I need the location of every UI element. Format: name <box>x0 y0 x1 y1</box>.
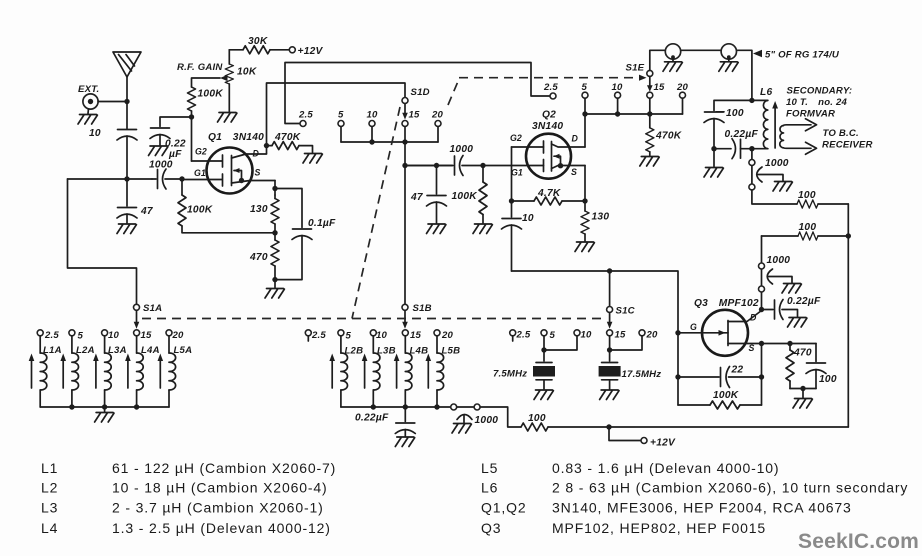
inductor L6 secondary <box>780 119 817 155</box>
capacitor 1000 (feedthrough) <box>457 415 472 423</box>
wire input line <box>68 178 153 180</box>
svg-text:+12V: +12V <box>650 438 676 449</box>
wire S1D bus down to S1B <box>404 142 406 304</box>
antenna <box>113 52 141 102</box>
svg-text:D: D <box>572 134 579 144</box>
resistor 100K (Q3 gate) <box>678 401 762 409</box>
ground (L-A common) <box>104 407 106 412</box>
ground (0.22uF Q3) <box>788 318 807 328</box>
inductor L3A <box>93 336 111 407</box>
svg-text:G2: G2 <box>510 133 522 143</box>
wire jack down to 100 line <box>752 190 797 204</box>
svg-text:47: 47 <box>140 206 154 217</box>
svg-text:2.5: 2.5 <box>516 330 531 341</box>
svg-text:470: 470 <box>249 252 268 263</box>
svg-text:0.1µF: 0.1µF <box>308 218 336 229</box>
svg-text:Q1,Q2: Q1,Q2 <box>481 500 527 516</box>
svg-text:20: 20 <box>646 330 659 341</box>
svg-text:+12V: +12V <box>298 46 324 57</box>
node Q2 G1 junction <box>480 163 485 168</box>
wiper arrow S1D <box>402 104 408 120</box>
node 100/0.22 junction <box>711 146 716 151</box>
dashed link S1D to S1E <box>448 78 639 105</box>
ground (J1) <box>663 62 682 72</box>
wire source branch <box>274 181 276 196</box>
svg-text:0.22µF: 0.22µF <box>355 413 389 424</box>
resistor 4.7K <box>512 197 586 205</box>
svg-text:L3A: L3A <box>108 345 127 356</box>
svg-text:10K: 10K <box>237 67 257 78</box>
crystal Y2 17.5MHz <box>599 350 621 389</box>
node 47 cap junction <box>434 163 439 168</box>
node 130/100K junction <box>272 230 277 235</box>
ground (tank cap) <box>713 149 715 167</box>
svg-text:L5B: L5B <box>442 346 461 357</box>
inductor L5B <box>426 336 444 407</box>
ground (Q3 source) <box>802 389 804 398</box>
node ground tap <box>800 386 805 391</box>
capacitor 47 <box>117 179 137 223</box>
resistor 100 (12V feed) <box>521 423 848 431</box>
svg-text:G2: G2 <box>195 147 207 157</box>
svg-text:S1A: S1A <box>143 303 162 314</box>
capacitor 0.22uF (output) <box>714 139 752 159</box>
resistor 130 (Q1 source) <box>271 195 279 233</box>
terminal 2.5 (S1E) <box>550 93 556 99</box>
svg-text:L2A: L2A <box>76 345 95 356</box>
wire S1E wiper to coax line <box>650 50 752 100</box>
capacitor 0.22uF (L-B common) <box>395 407 415 436</box>
svg-text:100: 100 <box>528 413 546 424</box>
svg-text:1000: 1000 <box>767 255 791 266</box>
wire L-B common <box>341 406 451 408</box>
ground (EXT) <box>78 115 97 125</box>
svg-text:L6: L6 <box>760 87 772 98</box>
inductor L3B <box>362 336 380 407</box>
svg-text:20: 20 <box>431 110 444 121</box>
svg-text:130: 130 <box>592 212 610 223</box>
svg-text:2.5: 2.5 <box>44 330 59 341</box>
inductor L4A <box>125 336 143 407</box>
resistor 100K (R.F. gain feed) <box>188 78 221 117</box>
svg-text:2.5: 2.5 <box>543 82 558 93</box>
wire G2 down <box>511 147 513 201</box>
node source/130 junction <box>582 198 587 203</box>
svg-text:0.22: 0.22 <box>165 139 186 150</box>
wire Q1 drain to S1D wiper <box>267 83 406 154</box>
node +12V tap <box>606 424 611 429</box>
inductor L2A <box>60 336 78 407</box>
node Q3 gate junction <box>675 330 680 335</box>
transistor Q3 (MPF102 JFET) <box>678 310 816 356</box>
ground (J2) <box>719 62 738 72</box>
svg-text:SeekIC.com: SeekIC.com <box>798 530 919 553</box>
svg-text:470K: 470K <box>655 131 682 142</box>
ground (470K) <box>303 154 322 164</box>
wire S1C wiper feed <box>609 271 611 306</box>
node antenna junction <box>124 99 129 104</box>
svg-text:20: 20 <box>676 82 689 93</box>
wiper arrow S1B <box>402 310 408 328</box>
svg-text:100: 100 <box>799 222 817 233</box>
wire +12V stub <box>609 427 641 441</box>
svg-text:G: G <box>690 322 697 332</box>
node Q3 source junction <box>759 341 764 346</box>
svg-text:470: 470 <box>793 348 812 359</box>
jack J1 (feedthrough) <box>665 44 680 61</box>
wire crystal bus to Q3 gate <box>512 271 679 333</box>
ground (130) <box>575 242 594 252</box>
dashed link S1D to gang <box>352 107 400 319</box>
wire G2 to bias node <box>191 117 193 161</box>
svg-text:17.5MHz: 17.5MHz <box>622 369 662 380</box>
resistor 130 (Q2) <box>581 201 589 241</box>
svg-text:2.5: 2.5 <box>311 330 326 341</box>
svg-text:Q3 MPF102: Q3 MPF102 <box>694 298 759 309</box>
switch S1D wiper <box>402 98 408 104</box>
capacitor 0.22uF (Q3 drain) <box>762 300 798 320</box>
svg-text:D: D <box>253 149 260 159</box>
svg-text:S: S <box>749 343 755 353</box>
svg-text:100: 100 <box>819 374 837 385</box>
switch S1E contacts 5,10,15,20 <box>582 92 686 114</box>
wiper arrow S1A <box>134 310 140 328</box>
capacitor 10 <box>117 102 137 180</box>
svg-text:100K: 100K <box>713 390 739 401</box>
resistor 30K <box>229 46 289 54</box>
node Q3 drain junction <box>759 307 764 312</box>
svg-text:D: D <box>750 313 757 323</box>
wire source network right leg <box>761 344 763 406</box>
switch S1C wiper <box>607 307 613 313</box>
node 22 cap left <box>675 374 680 379</box>
node common dots <box>371 404 376 409</box>
node source bias tap <box>787 341 792 346</box>
svg-text:100: 100 <box>726 108 744 119</box>
wire mixer line <box>405 165 452 167</box>
svg-text:10: 10 <box>612 82 624 93</box>
svg-text:5: 5 <box>582 82 588 93</box>
svg-text:L1A: L1A <box>43 345 62 356</box>
svg-text:15: 15 <box>410 330 422 341</box>
ground (1000 feedthrough) <box>773 182 792 192</box>
svg-text:1000: 1000 <box>765 158 789 169</box>
svg-text:10: 10 <box>522 213 534 224</box>
svg-text:5: 5 <box>338 110 344 121</box>
wiper arrow S1E <box>647 76 653 91</box>
svg-text:2.5: 2.5 <box>298 110 313 121</box>
svg-text:30K: 30K <box>248 36 268 47</box>
resistor 470 (Q1 source) <box>271 233 279 280</box>
capacitor 1000 (Q2 coupling) <box>405 156 483 176</box>
svg-text:0.22µF: 0.22µF <box>787 296 821 307</box>
wire gate network left leg <box>677 333 679 405</box>
svg-text:TO B.C.: TO B.C. <box>823 128 859 139</box>
node S1A source junction <box>272 186 277 191</box>
svg-text:S: S <box>571 167 577 177</box>
dashed link S1A-S1B-S1C <box>142 318 603 320</box>
svg-text:S1E: S1E <box>626 63 645 74</box>
wire Q2 source down <box>584 166 586 202</box>
wire Q2 drain up to range bus <box>584 114 586 147</box>
svg-text:10: 10 <box>581 330 593 341</box>
svg-text:10: 10 <box>108 330 120 341</box>
capacitor 1000 (feedthrough 2) <box>767 269 792 284</box>
svg-text:2 8 - 63 µH (Cambion X2060-6),: 2 8 - 63 µH (Cambion X2060-6), 10 turn s… <box>552 480 908 496</box>
capacitor 0.1uF (source bypass) <box>275 189 312 280</box>
switch S1A wiper <box>134 304 140 310</box>
ground (0.22uF) <box>395 437 414 447</box>
node G1 junction <box>179 176 184 181</box>
svg-text:RECEIVER: RECEIVER <box>822 140 873 151</box>
svg-text:1000: 1000 <box>475 415 499 426</box>
svg-text:20: 20 <box>172 330 185 341</box>
jack pair (Q3 drain, 1000 feedthrough) <box>759 236 765 310</box>
svg-text:5: 5 <box>78 331 84 342</box>
ground (cap 47 mid) <box>427 224 446 234</box>
svg-text:22: 22 <box>731 365 744 376</box>
resistor 100 (line 2) <box>762 232 849 240</box>
wire L-A common <box>40 406 169 408</box>
svg-text:10: 10 <box>367 110 379 121</box>
inductor L6 primary <box>752 100 768 148</box>
jack pair (antenna line, 1000 feedthrough) <box>451 404 521 427</box>
wire 470/100 bottom <box>790 388 816 390</box>
capacitor 0.22uF (G2 bypass) <box>150 117 192 145</box>
svg-text:S1D: S1D <box>411 87 430 98</box>
svg-text:2 - 3.7 µH (Cambion X2060-1): 2 - 3.7 µH (Cambion X2060-1) <box>112 500 324 516</box>
svg-text:G1: G1 <box>511 168 523 178</box>
svg-text:1000: 1000 <box>149 160 173 171</box>
svg-text:0.83 - 1.6 µH (Delevan 4000-10: 0.83 - 1.6 µH (Delevan 4000-10) <box>552 460 779 476</box>
node G2/4.7K junction <box>509 198 514 203</box>
resistor 100K (Q1 G1 bias) <box>178 179 275 233</box>
ground (cap 47) <box>117 224 136 234</box>
wire S1E contact bus <box>585 113 683 115</box>
node mixer line tap <box>402 163 407 168</box>
node bus dots <box>615 111 620 116</box>
switch S1C contacts <box>510 330 645 350</box>
capacitor 10 (G2 to crystal bus) <box>502 201 522 271</box>
svg-text:1.3 - 2.5 µH (Delevan 4000-12): 1.3 - 2.5 µH (Delevan 4000-12) <box>112 520 331 536</box>
svg-text:L3B: L3B <box>377 346 396 357</box>
svg-text:4.7K: 4.7K <box>537 188 561 199</box>
capacitor 100 (tank) <box>704 100 752 148</box>
svg-text:MPF102, HEP802, HEP F0015: MPF102, HEP802, HEP F0015 <box>552 520 766 536</box>
node right bus dot <box>846 233 851 238</box>
node crystal 2 junction <box>607 347 612 352</box>
arrow into S1E <box>639 75 647 81</box>
capacitor 1000 (input coupling) <box>152 169 182 189</box>
ground (470K) <box>640 157 659 167</box>
node common dots <box>69 404 74 409</box>
capacitor 100 (Q3 source) <box>806 344 826 389</box>
svg-text:15: 15 <box>409 110 421 121</box>
svg-text:15: 15 <box>141 330 153 341</box>
inductor L5A <box>158 336 176 407</box>
svg-text:L4B: L4B <box>410 346 429 357</box>
svg-text:5: 5 <box>346 331 352 342</box>
switch S1B contacts <box>305 330 440 341</box>
switch S1A contacts <box>37 330 172 336</box>
node S1C tap <box>607 268 612 273</box>
resistor 470K (S1E bus) <box>646 114 654 156</box>
svg-text:L3: L3 <box>41 500 58 516</box>
potentiometer 10K <box>220 50 233 112</box>
ground (Y1) <box>534 390 553 400</box>
svg-text:L2: L2 <box>41 480 58 496</box>
svg-text:Q2: Q2 <box>542 110 556 121</box>
node L6 bottom <box>749 146 754 151</box>
svg-text:100: 100 <box>798 190 816 201</box>
wire EXT to antenna node <box>98 101 127 103</box>
switch S1D contacts 5,10,15,20 <box>338 121 441 143</box>
svg-text:0.22µF: 0.22µF <box>725 129 759 140</box>
svg-text:FORMVAR: FORMVAR <box>786 109 835 120</box>
svg-text:10: 10 <box>89 128 101 139</box>
svg-text:SECONDARY:: SECONDARY: <box>787 86 853 97</box>
svg-text:5" OF RG 174/U: 5" OF RG 174/U <box>765 50 840 61</box>
svg-text:5: 5 <box>550 330 556 341</box>
node 470/0.1uF junction <box>272 277 277 282</box>
svg-text:130: 130 <box>250 204 268 215</box>
svg-text:R.F. GAIN: R.F. GAIN <box>177 62 223 73</box>
svg-text:G1: G1 <box>194 168 206 178</box>
svg-text:20: 20 <box>441 330 454 341</box>
svg-text:15: 15 <box>654 82 666 93</box>
transistor Q1 (3N140 dual-gate MOSFET) <box>182 148 275 194</box>
wiper arrow S1C <box>607 313 613 329</box>
svg-text:S: S <box>255 168 261 178</box>
svg-text:15: 15 <box>615 330 627 341</box>
node 22 cap right <box>759 374 764 379</box>
svg-text:100K: 100K <box>187 205 213 216</box>
inductor L2B <box>329 336 347 407</box>
terminal +12V <box>289 47 295 53</box>
capacitor 22 (feedback) <box>678 367 762 388</box>
ground (100K mid) <box>473 224 492 234</box>
resistor 470K (Q1 drain) <box>264 142 313 153</box>
wire input to S1A wiper <box>68 179 137 304</box>
node G2 bias junction <box>189 114 194 119</box>
svg-text:100K: 100K <box>198 89 224 100</box>
svg-text:47: 47 <box>410 192 424 203</box>
svg-text:L1: L1 <box>41 460 58 476</box>
svg-text:S1B: S1B <box>413 303 432 314</box>
node L6 top <box>749 98 754 103</box>
capacitor 1000 (feedthrough) <box>757 167 783 182</box>
ground (1000 feedthrough 2) <box>782 284 801 294</box>
ground (1000 feedthrough) <box>452 424 471 434</box>
svg-text:61 - 122 µH (Cambion X2060-7): 61 - 122 µH (Cambion X2060-7) <box>112 460 336 476</box>
wire S1D contact bus <box>341 141 438 143</box>
ground (0.22uF) <box>149 146 168 156</box>
terminal +12V <box>641 438 647 444</box>
svg-text:470K: 470K <box>274 132 301 143</box>
ground (Q1 source network) <box>274 280 276 288</box>
svg-text:µF: µF <box>168 149 182 160</box>
inductor L4B <box>394 336 412 407</box>
coax note arrow <box>753 50 762 57</box>
svg-text:10: 10 <box>376 330 388 341</box>
resistor 470 (Q3 source) <box>786 344 794 389</box>
wire +12V bus (2.5 range) <box>285 63 550 124</box>
svg-text:7.5MHz: 7.5MHz <box>493 369 527 380</box>
resistor 100K (Q2 G1) <box>479 166 487 224</box>
svg-text:L4A: L4A <box>141 345 160 356</box>
crystal Y1 7.5MHz <box>533 350 555 389</box>
node input/cap junction <box>124 176 129 181</box>
svg-text:3N140: 3N140 <box>532 121 563 132</box>
svg-text:100K: 100K <box>452 191 478 202</box>
wire right bus <box>847 204 849 427</box>
switch S1E wiper <box>647 70 653 76</box>
svg-text:L5: L5 <box>481 460 498 476</box>
transistor Q2 (3N140 dual-gate MOSFET) <box>483 134 585 179</box>
jack J2 (feedthrough) <box>721 44 736 61</box>
svg-text:Q1 3N140: Q1 3N140 <box>208 132 264 143</box>
ground (pot) <box>218 113 237 123</box>
ground (Y2) <box>600 390 619 400</box>
core arrow L6 <box>772 101 778 148</box>
svg-text:10 - 18 µH (Cambion X2060-4): 10 - 18 µH (Cambion X2060-4) <box>112 480 328 496</box>
svg-text:10 T. no. 24: 10 T. no. 24 <box>786 97 848 108</box>
node crystal 1 junction <box>541 347 546 352</box>
node bus dots <box>369 139 374 144</box>
svg-text:3N140, MFE3006, HEP F2004, RCA: 3N140, MFE3006, HEP F2004, RCA 40673 <box>552 500 852 516</box>
terminal 2.5 (S1D) <box>300 121 306 127</box>
svg-text:L4: L4 <box>41 520 58 536</box>
jack pair (output, 1000 feedthrough) <box>749 149 755 190</box>
resistor 100 (line 1) <box>797 200 848 208</box>
svg-text:L6: L6 <box>481 480 498 496</box>
svg-text:L5A: L5A <box>174 345 193 356</box>
node drain/contact-5 junction <box>582 111 587 116</box>
inductor L1A <box>29 336 47 407</box>
connector J-EXT <box>83 94 98 114</box>
svg-text:L2B: L2B <box>345 346 364 357</box>
svg-text:Q3: Q3 <box>481 520 501 536</box>
capacitor 47 (mid) <box>427 166 447 224</box>
svg-text:S1C: S1C <box>616 306 636 317</box>
switch S1B wiper <box>402 304 408 310</box>
svg-text:1000: 1000 <box>450 144 474 155</box>
